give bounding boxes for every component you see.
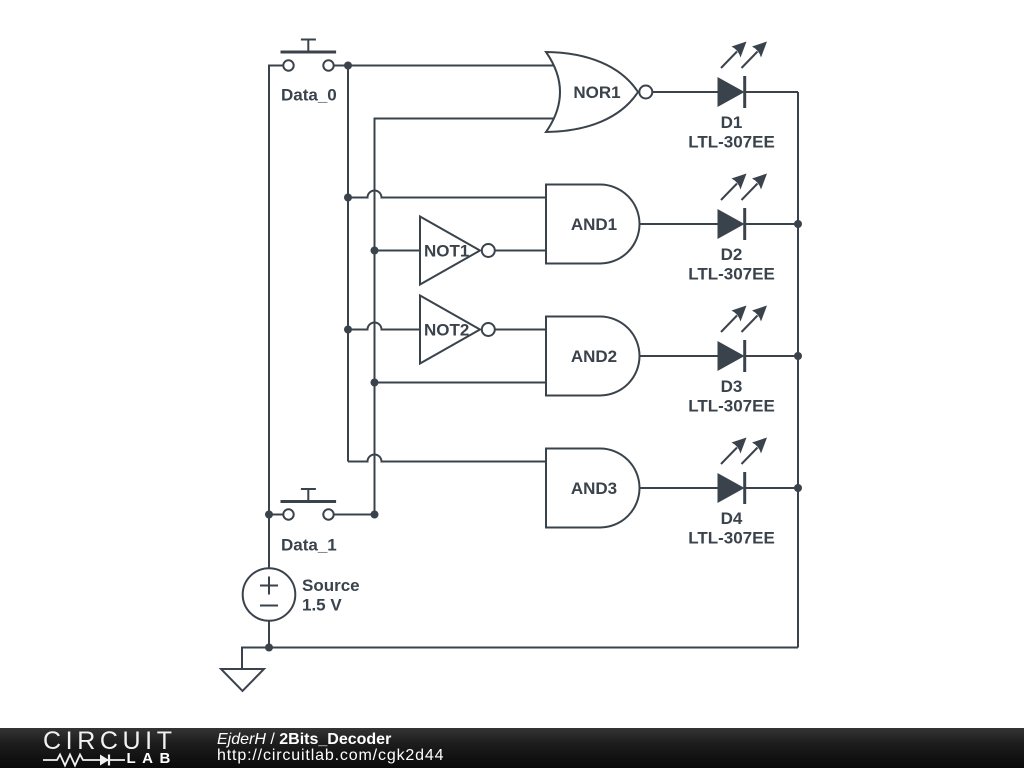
svg-text:LTL-307EE: LTL-307EE bbox=[688, 529, 775, 548]
wire: Data_0 vertical bus bbox=[347, 66, 349, 462]
inverter NOT1 bbox=[420, 217, 495, 285]
CircuitLab logo word CIRCUIT bbox=[43, 727, 177, 756]
LED D3 bbox=[719, 306, 768, 373]
junction node: Data_1 bus / AND2 bottom input bbox=[371, 379, 379, 387]
and gate AND3 bbox=[546, 449, 640, 528]
svg-text:Source: Source bbox=[302, 576, 360, 595]
wire: Data_0 bus to NOT2 input (hop over Data_1 bus) bbox=[348, 323, 422, 330]
CircuitLab logo resistor-diode glyph bbox=[43, 752, 128, 768]
and gate AND2 bbox=[546, 317, 640, 396]
junction node: Data_0 right terminal bbox=[344, 62, 352, 70]
svg-text:LTL-307EE: LTL-307EE bbox=[688, 397, 775, 416]
wire: Data_0 bus to AND3 top input (hop over Data_1 bus) bbox=[348, 455, 548, 462]
CircuitLab logo word LAB bbox=[127, 750, 177, 767]
svg-text:AND3: AND3 bbox=[571, 479, 617, 498]
svg-text:LTL-307EE: LTL-307EE bbox=[688, 265, 775, 284]
junction node: Data_1 left terminal to source bbox=[265, 511, 273, 519]
svg-text:NOT1: NOT1 bbox=[424, 242, 469, 261]
svg-text:D3: D3 bbox=[721, 377, 743, 396]
junction node: right bus / D4 bbox=[794, 484, 802, 492]
wire: right bus down to bottom rail bbox=[797, 92, 799, 648]
svg-text:AND2: AND2 bbox=[571, 347, 617, 366]
svg-text:NOR1: NOR1 bbox=[573, 83, 620, 102]
svg-text:D2: D2 bbox=[721, 245, 743, 264]
junction node: Data_1 bus / NOT1 input bbox=[371, 247, 379, 255]
ground bbox=[221, 669, 264, 691]
svg-text:LTL-307EE: LTL-307EE bbox=[688, 133, 775, 152]
wire: left bus from Data_0 to source and ground bbox=[269, 66, 283, 648]
junction node: source minus to ground rail bbox=[265, 644, 273, 652]
junction node: right bus / D2 bbox=[794, 220, 802, 228]
wire: NOT2 output to AND2 top input bbox=[495, 329, 548, 331]
wire: Data_1 bus to NOT1 input bbox=[375, 250, 423, 252]
svg-text:Data_1: Data_1 bbox=[281, 536, 337, 555]
svg-text:AND1: AND1 bbox=[571, 215, 617, 234]
wire: bottom ground rail bbox=[242, 648, 798, 669]
wire: AND2 output to LED D3 bbox=[640, 355, 719, 357]
svg-text:NOT2: NOT2 bbox=[424, 321, 469, 340]
wire: NOR1 output to LED D1 bbox=[652, 91, 719, 93]
inverter NOT2 bbox=[420, 296, 495, 364]
wire: Data_1 button leads bbox=[269, 514, 375, 516]
LED D4 bbox=[719, 438, 768, 505]
svg-text:D1: D1 bbox=[721, 113, 743, 132]
pushbutton SW Data_0 bbox=[281, 40, 337, 71]
and gate AND1 bbox=[546, 185, 640, 264]
wire: LED cathodes to right bus bbox=[745, 92, 798, 488]
footer title: EjderH / 2Bits_Decoder bbox=[217, 731, 391, 749]
junction node: Data_1 right terminal bbox=[371, 511, 379, 519]
junction node: right bus / D3 bbox=[794, 352, 802, 360]
svg-text:D4: D4 bbox=[721, 509, 743, 528]
wire: AND3 output to LED D4 bbox=[640, 487, 719, 489]
nor gate NOR1 bbox=[546, 52, 652, 132]
junction node: Data_0 bus / AND1 top input bbox=[344, 194, 352, 202]
voltage source V1 Source bbox=[243, 568, 296, 621]
wire: NOT1 output to AND1 bottom input bbox=[495, 250, 548, 252]
wire: Data_1 bus to AND2 bottom input bbox=[375, 382, 549, 384]
wire: Data_1 vertical bus bbox=[375, 119, 558, 515]
footer bar bbox=[0, 728, 1024, 768]
LED D2 bbox=[719, 174, 768, 241]
wire: AND1 output to LED D2 bbox=[640, 223, 719, 225]
wire: Data_0 bus to AND1 top input (hop over Data_1 bus) bbox=[348, 191, 548, 198]
pushbutton SW Data_1 bbox=[281, 489, 337, 520]
LED D1 bbox=[719, 42, 768, 109]
svg-text:1.5 V: 1.5 V bbox=[302, 596, 342, 615]
wire: Data_0 output to NOR1 top input bbox=[334, 65, 557, 67]
svg-text:Data_0: Data_0 bbox=[281, 86, 337, 105]
junction node: Data_0 bus / NOT2 input bbox=[344, 326, 352, 334]
footer url bbox=[217, 747, 444, 765]
